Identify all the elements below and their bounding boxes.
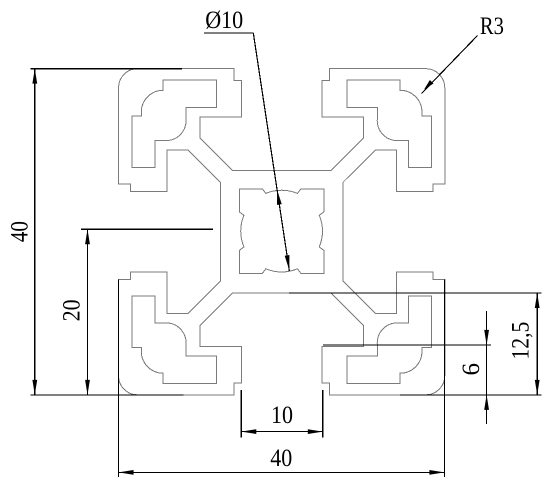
arrowheads dim 10 [241,429,256,434]
dim line left 20 [87,229,89,395]
svg-text:12,5: 12,5 [508,322,535,360]
svg-text:20: 20 [58,299,85,321]
corner cavity bottom-right [347,296,431,384]
svg-text:10: 10 [271,402,293,429]
extension line top-left for dim 40 [31,68,182,70]
arrowheads leader diameter 10 [277,190,282,205]
extension line bottom-right for dims 12.5 and 6 [400,394,542,396]
arrowheads dim 40 bottom [119,470,134,475]
svg-text:40: 40 [270,445,292,472]
center bore hole [239,189,324,274]
extension line mid-left for dim 20 [81,228,213,230]
extension line bottom slot right for dim 10 [322,390,324,438]
svg-text:Ø10: Ø10 [205,7,243,34]
extension line right for dim 12.5 [289,292,542,294]
arrowhead leader R3 [424,80,433,90]
corner cavity top-left [132,80,216,168]
leader line diameter 10 [204,32,253,34]
corner cavity top-right [347,80,431,168]
leader line R3 [422,36,478,94]
extension line bottom-right vertical for dim 40 [443,279,445,476]
dim line bottom 40 [119,471,445,473]
arrowheads dim 12.5 [535,293,540,308]
extension line bottom-left vertical for dim 40 [118,279,120,476]
arrowheads dim 40 left [32,69,37,84]
svg-text:6: 6 [458,363,485,376]
dim line bottom 10 [241,431,322,433]
svg-text:40: 40 [6,221,33,242]
extension line right for dim 6 [323,344,491,346]
svg-text:R3: R3 [480,13,504,40]
dim line left 40 [34,69,36,395]
arrowheads dim 6 outside [484,330,489,345]
extension line bottom slot left for dim 10 [240,390,242,438]
extension line bottom-left for dims 40 and 20 [31,394,184,396]
dim line right 12.5 [536,293,538,395]
profile outer outline [119,69,445,395]
arrowheads dim 20 [85,229,90,244]
corner cavity bottom-left [132,296,216,384]
dim line right 6 [486,311,488,424]
